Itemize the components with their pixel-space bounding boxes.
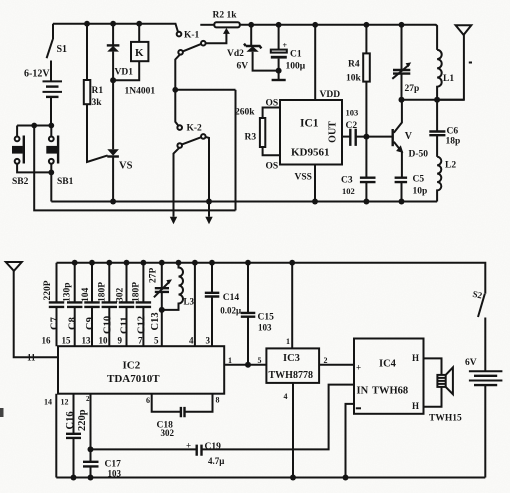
capacitor C8 330p [63,263,83,347]
op-amp IC1 KD9561 box [280,100,342,165]
svg-text:18p: 18p [446,137,461,147]
antenna transmitter [437,25,472,100]
svg-text:C5: C5 [413,175,425,185]
svg-text:S1: S1 [57,44,68,55]
relay contact K-2 [177,124,205,148]
svg-text:C6: C6 [447,127,459,137]
svg-text:V: V [405,131,413,142]
diode VD1 1N4001 [107,24,156,97]
node VD1 top [110,21,116,27]
node varicap bottom [399,97,405,103]
node SB1 bottom [48,170,54,176]
capacitor C14 0.02u [205,263,241,347]
node C11 top [124,260,130,266]
wire VDD rail [240,25,437,50]
svg-text:L3: L3 [184,297,195,307]
svg-text:D-50: D-50 [409,150,429,160]
svg-text:K-2: K-2 [187,124,203,134]
svg-text:TDA7010T: TDA7010T [107,373,160,385]
wire ground rail of transmitter [51,201,437,203]
svg-text:IC1: IC1 [300,118,319,130]
svg-text:K-1: K-1 [184,31,200,41]
wire ground rail of receiver [56,477,485,479]
transistor V D-50 [393,100,429,178]
capacitor C18 302 between pins 6 and 8 [146,394,220,438]
thyristor VS [107,80,132,201]
node K-1 pivot branch [172,87,178,93]
wire pin 4 column [194,263,196,347]
node pin4 top [192,260,198,266]
svg-text:1: 1 [286,337,290,346]
svg-text:TWH68: TWH68 [372,386,408,397]
svg-text:H: H [412,353,419,363]
svg-text:4: 4 [189,336,194,346]
ground symbol [272,71,286,80]
svg-text:130p: 130p [63,282,73,302]
svg-text:8: 8 [216,396,220,405]
node pin1-C15 junction [245,362,251,368]
svg-text:Vd2: Vd2 [227,49,244,59]
svg-text:180P: 180P [132,282,142,302]
svg-text:C7: C7 [50,317,61,330]
node K top [136,21,142,27]
node base junction [363,134,369,140]
svg-text:103: 103 [346,107,359,117]
svg-text:10: 10 [99,336,109,346]
pin OS bottom [263,147,280,172]
svg-text:12: 12 [61,398,69,407]
node L3 top [176,260,182,266]
svg-text:3: 3 [206,336,211,346]
capacitor C7 220p [43,263,64,347]
svg-text:6V: 6V [237,62,249,72]
svg-text:KD9561: KD9561 [291,147,330,159]
svg-text:11: 11 [27,353,36,363]
stray mark left edge [0,408,4,417]
node SB1 top [48,123,54,129]
node IC4 minus on rail [343,475,349,481]
pin OS top [263,99,280,119]
IC4 TWH68 box [354,339,424,414]
capacitor C17 103 [83,394,122,479]
capacitor C9 104 [81,263,100,347]
pin 14 wire IC2 bottom [55,394,57,478]
svg-text:4: 4 [284,392,288,401]
arrow to receiver left [170,217,177,224]
wire lower return rail [34,126,235,211]
svg-text:C8: C8 [68,317,79,330]
node C13 top [159,260,165,266]
svg-text:C11: C11 [120,316,131,334]
IC3 TWH8778 box [266,348,319,383]
svg-text:IC3: IC3 [283,353,300,364]
variable capacitor 27p [392,25,419,100]
svg-text:VSS: VSS [295,173,312,183]
antenna receiver [6,262,58,363]
svg-text:4.7μ: 4.7μ [208,456,224,466]
capacitor C3 102 [341,137,376,202]
svg-text:220p: 220p [77,409,88,431]
svg-text:27P: 27P [149,268,159,284]
svg-text:IC4: IC4 [379,359,397,370]
svg-text:C3: C3 [341,176,353,186]
svg-text:C13: C13 [150,312,161,330]
capacitor C11 302 [116,263,135,347]
node IC3 pin4 on rail [290,475,296,481]
wire supply rail of receiver [57,263,486,294]
svg-text:R3: R3 [245,133,257,143]
node R4 top [364,22,370,28]
node C1 top [276,22,282,28]
svg-text:260k: 260k [235,108,255,118]
svg-text:OS: OS [266,99,279,109]
capacitor C19 4.7u electrolytic [91,385,355,466]
node C3 on rail [363,199,369,205]
capacitor C16 220p [65,394,88,478]
arrow to receiver right [205,217,212,224]
pin 1 wire IC2 right [224,364,266,366]
node C12 top [141,260,147,266]
wire VDD pin [314,25,316,100]
pin 2 wire IC3 to IC4 [319,364,354,366]
pushbutton SB1 [46,126,73,188]
svg-text:OUT: OUT [328,121,339,143]
svg-text:+: + [356,363,361,373]
svg-text:220P: 220P [43,280,53,300]
pin 4 wire IC3 bottom [292,383,294,478]
node Vd2 top [248,22,254,28]
svg-text:C19: C19 [205,442,222,452]
node C9 top [89,260,95,266]
svg-text:R1: R1 [92,86,104,96]
svg-text:14: 14 [44,398,52,407]
node C8 top [72,260,78,266]
svg-text:5: 5 [154,336,159,346]
svg-text:H: H [412,401,419,411]
svg-text:L1: L1 [443,74,454,84]
svg-text:SB1: SB1 [57,177,74,187]
pin OUT [328,121,351,143]
svg-text:302: 302 [116,288,126,303]
svg-text:6: 6 [146,396,150,405]
svg-text:6V: 6V [465,358,477,368]
node VDD pin top [312,22,318,28]
wire IC4 minus to rail [346,404,355,478]
resistor R1 [84,24,108,162]
svg-text:9: 9 [118,336,123,346]
relay contact K-1 [175,31,205,126]
svg-text:C1: C1 [290,50,302,60]
node VS cathode on rail [110,199,116,205]
svg-text:+: + [186,441,191,451]
svg-text:10p: 10p [413,187,428,197]
svg-text:2: 2 [324,356,328,365]
node C15 top [245,260,251,266]
svg-text:C12: C12 [136,316,147,334]
speaker TWH15 [424,358,462,423]
svg-text:IC2: IC2 [123,360,141,372]
inductor L2 [437,157,456,202]
svg-text:1N4001: 1N4001 [125,87,156,97]
svg-text:100μ: 100μ [286,62,306,72]
svg-text:7: 7 [138,336,143,346]
node C13-L3 junction [159,307,165,313]
svg-text:302: 302 [161,428,175,438]
wire battery to pushbuttons [17,125,51,127]
node IC3 pin1 top [289,260,295,266]
capacitor C15 103 [241,263,274,365]
capacitor C2 103 [346,107,393,146]
wire K branch vertical [235,90,237,211]
svg-text:3k: 3k [92,98,103,108]
wire K-1 pivot branch [175,89,235,91]
capacitor C1 100u electrolytic [271,25,306,72]
svg-text:C2: C2 [346,121,358,131]
wire K-2 blade to left arrow [174,148,180,217]
battery 6-12V [24,69,62,126]
svg-text:R2 1k: R2 1k [213,11,238,21]
node C17 top C19 wire [88,446,94,452]
svg-text:103: 103 [258,323,272,333]
svg-text:27p: 27p [405,84,420,94]
svg-text:102: 102 [342,186,355,196]
svg-text:C9: C9 [85,317,96,330]
svg-text:C16: C16 [65,411,76,429]
svg-text:VD1: VD1 [115,68,134,78]
svg-text:C14: C14 [223,293,240,303]
svg-text:TWH15: TWH15 [429,414,462,424]
svg-text:OS: OS [266,162,279,172]
svg-text:180P: 180P [98,282,108,302]
svg-text:IN: IN [357,386,369,397]
zener diode Vd2 6V [227,25,279,72]
node C14 top [209,260,215,266]
resistor R4 10k [346,25,370,137]
pin VSS [295,165,316,202]
node C17 bottom [88,475,94,481]
svg-text:R4: R4 [348,60,360,70]
wire collector node line [402,99,464,101]
capacitor C5 10p [395,175,428,202]
node C10 top [106,260,112,266]
resistor R3 260k [235,108,265,148]
capacitor C12 180p [132,263,152,347]
svg-text:1: 1 [228,356,232,365]
svg-text:2: 2 [86,395,90,403]
svg-text:104: 104 [81,288,91,303]
svg-text:K: K [135,47,144,59]
battery 6V [465,358,502,478]
svg-text:L2: L2 [445,161,456,171]
wire K-2 contact to right arrow [206,137,210,217]
wire top rail of transmitter [53,24,178,32]
svg-text:6-12V: 6-12V [24,69,50,80]
inductor L1 [437,50,454,100]
node varicap top [399,22,405,28]
svg-text:VS: VS [119,161,133,172]
switch S1 [47,24,67,82]
potentiometer R2 1k [200,11,240,44]
node C16 bottom [71,475,77,481]
svg-text:0.02μ: 0.02μ [220,306,241,316]
svg-text:C15: C15 [258,313,275,323]
pin numbers IC2 top [42,336,211,346]
svg-text:16: 16 [42,336,52,346]
inductor L3 [162,263,195,310]
switch S2 [472,289,486,371]
svg-text:SB2: SB2 [12,177,29,187]
svg-text:5: 5 [258,356,262,365]
svg-text:VDD: VDD [320,90,341,100]
svg-text:TWH8778: TWH8778 [269,370,313,381]
node C5 on rail [399,199,405,205]
wire IC3 pin 1 [291,263,293,349]
svg-text:C10: C10 [102,316,113,334]
capacitor C6 18p [429,100,460,157]
node VD1-K junction [110,77,116,83]
node right arrow on rail [206,199,212,205]
capacitor C10 180p [98,263,118,347]
node L1 bottom [434,97,440,103]
node C1 ground [276,68,282,74]
node rail2 branch [31,123,37,129]
svg-text:15: 15 [62,336,72,346]
node R1 top [84,21,90,27]
pushbutton SB2 [12,126,51,188]
relay coil K [113,24,148,80]
svg-text:+: + [283,41,288,50]
variable capacitor C13 27p [149,263,173,347]
svg-text:13: 13 [82,336,92,346]
node VSS on rail [312,199,318,205]
wire SB1 down to ground rail [50,172,52,201]
svg-text:10k: 10k [346,74,362,84]
IC2 TDA7010T box [58,346,224,394]
